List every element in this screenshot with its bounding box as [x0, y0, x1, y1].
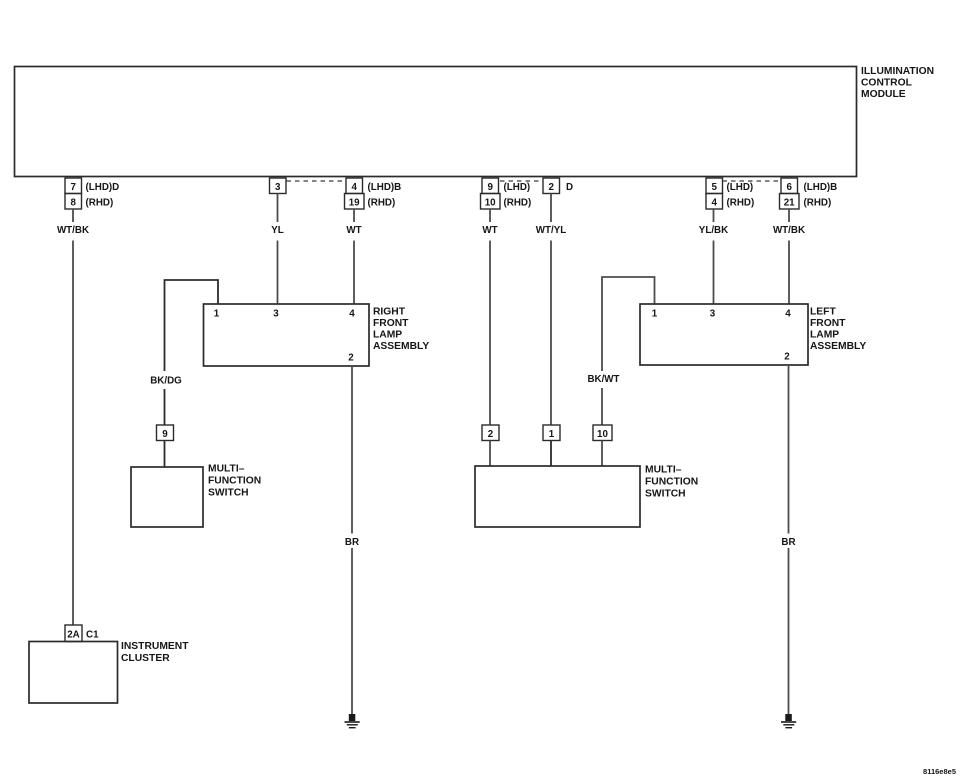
svg-text:(LHD)D: (LHD)D: [86, 182, 120, 193]
right front lamp assembly: [204, 304, 430, 366]
svg-text:BK/WT: BK/WT: [587, 374, 619, 385]
connector pin 4 (LHD)B / 19 (RHD): [345, 178, 402, 209]
wire WT pin9/10 to switch pin2: [482, 209, 497, 425]
svg-text:D: D: [566, 182, 573, 193]
wire pin10 box to right switch: [601, 441, 603, 467]
svg-text:CLUSTER: CLUSTER: [121, 653, 170, 664]
svg-text:(RHD): (RHD): [504, 198, 532, 209]
svg-text:FUNCTION: FUNCTION: [645, 477, 698, 488]
svg-text:LAMP: LAMP: [810, 330, 839, 341]
svg-text:MODULE: MODULE: [861, 89, 906, 100]
instrument cluster: [29, 641, 189, 703]
connector pin 7 (LHD)D / 8 (RHD): [65, 178, 119, 209]
svg-text:3: 3: [710, 309, 716, 320]
svg-text:FRONT: FRONT: [810, 318, 846, 329]
dashed connector link pins 9-2: [500, 180, 543, 182]
svg-text:(RHD): (RHD): [368, 198, 396, 209]
svg-text:1: 1: [214, 309, 220, 320]
svg-text:WT/YL: WT/YL: [536, 225, 566, 236]
wire WT/BK pin6/21 to left lamp pin4: [773, 209, 805, 304]
connector pin 2 (multi-function switch, right): [482, 425, 499, 441]
illumination control module: [15, 66, 935, 177]
wire WT pin4/19 to right lamp pin4: [346, 209, 361, 304]
svg-text:ASSEMBLY: ASSEMBLY: [810, 341, 866, 352]
svg-text:FRONT: FRONT: [373, 318, 409, 329]
svg-text:(RHD): (RHD): [804, 198, 832, 209]
svg-text:FUNCTION: FUNCTION: [208, 476, 261, 487]
connector pin 9 (multi-function switch, left): [157, 425, 174, 441]
svg-text:3: 3: [275, 182, 281, 193]
connector pin 10 (multi-function switch, right): [593, 425, 612, 441]
svg-text:(LHD): (LHD): [504, 182, 531, 193]
svg-text:3: 3: [273, 309, 279, 320]
svg-text:1: 1: [652, 309, 658, 320]
left front lamp assembly: [640, 304, 866, 365]
svg-text:21: 21: [784, 198, 795, 209]
wire YL pin3 to right lamp pin3: [271, 194, 284, 305]
svg-text:4: 4: [351, 182, 357, 193]
svg-text:BR: BR: [345, 537, 359, 548]
wire YL/BK pin5/4 to left lamp pin3: [699, 209, 728, 304]
dashed connector link pins 5-6: [723, 180, 782, 182]
svg-text:MULTI–: MULTI–: [208, 464, 245, 475]
svg-text:9: 9: [162, 429, 168, 440]
svg-text:8116e8e5: 8116e8e5: [923, 767, 956, 776]
svg-text:9: 9: [487, 182, 493, 193]
wire WT/BK pin7/8 to instrument cluster: [57, 209, 89, 625]
wire BR left lamp pin2 to ground: [781, 365, 795, 717]
svg-text:2: 2: [548, 182, 554, 193]
ground G2: [781, 714, 796, 728]
svg-text:SWITCH: SWITCH: [208, 488, 249, 499]
dashed connector link pins 3-4: [287, 180, 347, 182]
svg-text:RIGHT: RIGHT: [373, 307, 406, 318]
svg-text:6: 6: [786, 182, 792, 193]
svg-text:LAMP: LAMP: [373, 330, 402, 341]
connector pin 5 (LHD) / 4 (RHD): [706, 178, 754, 209]
svg-text:10: 10: [597, 429, 608, 440]
wire BK/WT left lamp pin1 to switch pin10: [587, 277, 654, 425]
svg-text:WT: WT: [482, 225, 497, 236]
multi-function switch (left): [131, 464, 261, 528]
svg-text:BK/DG: BK/DG: [150, 376, 182, 387]
connector pin 3: [270, 178, 287, 194]
wire BK/DG right lamp pin1 to switch pin9: [150, 280, 218, 425]
connector pin 9 (LHD) / 10 (RHD): [481, 178, 532, 209]
svg-text:4: 4: [711, 198, 717, 209]
svg-text:2: 2: [488, 429, 494, 440]
svg-text:MULTI–: MULTI–: [645, 465, 682, 476]
wire pin2 box to right switch: [489, 441, 491, 467]
svg-text:WT/BK: WT/BK: [57, 225, 89, 236]
svg-text:ASSEMBLY: ASSEMBLY: [373, 341, 429, 352]
ground G1: [345, 714, 360, 728]
svg-text:BR: BR: [781, 537, 795, 548]
svg-text:YL/BK: YL/BK: [699, 225, 728, 236]
wire pin1 box to right switch: [550, 441, 552, 467]
wire pin9 box to left switch: [164, 441, 166, 468]
svg-text:10: 10: [485, 198, 496, 209]
connector pin 1 (multi-function switch, right): [543, 425, 560, 441]
svg-text:2: 2: [784, 352, 790, 363]
svg-text:1: 1: [549, 429, 555, 440]
connector pin 2 D: [543, 178, 573, 194]
svg-text:19: 19: [349, 198, 360, 209]
svg-text:(RHD): (RHD): [727, 198, 755, 209]
svg-text:(LHD)B: (LHD)B: [804, 182, 838, 193]
svg-text:(LHD): (LHD): [727, 182, 754, 193]
connector pin 6 (LHD)B / 21 (RHD): [780, 178, 838, 209]
svg-text:WT: WT: [346, 225, 361, 236]
svg-text:LEFT: LEFT: [810, 307, 836, 318]
svg-text:2A: 2A: [67, 630, 80, 641]
svg-text:4: 4: [785, 309, 791, 320]
wire WT/YL pin2 to switch pin1: [536, 194, 566, 426]
svg-text:C1: C1: [86, 630, 99, 641]
svg-text:ILLUMINATION: ILLUMINATION: [861, 66, 934, 77]
svg-text:4: 4: [349, 309, 355, 320]
wire BR right lamp pin2 to ground: [345, 366, 359, 717]
svg-text:(RHD): (RHD): [86, 198, 114, 209]
svg-text:7: 7: [70, 182, 76, 193]
multi-function switch (right): [475, 465, 698, 528]
svg-text:CONTROL: CONTROL: [861, 78, 912, 89]
svg-text:8: 8: [70, 198, 76, 209]
svg-text:(LHD)B: (LHD)B: [368, 182, 402, 193]
svg-text:SWITCH: SWITCH: [645, 489, 686, 500]
svg-text:WT/BK: WT/BK: [773, 225, 805, 236]
connector 2A C1 (instrument cluster): [65, 625, 99, 642]
svg-text:2: 2: [348, 353, 354, 364]
svg-text:INSTRUMENT: INSTRUMENT: [121, 641, 189, 652]
svg-text:YL: YL: [271, 225, 284, 236]
svg-text:5: 5: [711, 182, 717, 193]
